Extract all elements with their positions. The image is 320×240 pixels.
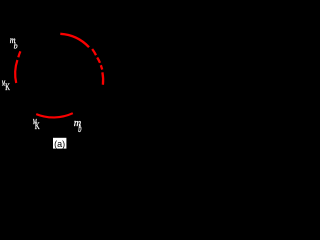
svg-text:(a): (a) — [54, 139, 65, 149]
label M_K bottom-left: subscript K — [35, 121, 40, 131]
svg-text:b: b — [14, 41, 18, 50]
dashed red circle: right dash 3 — [101, 65, 102, 69]
dashed red circle: bottom long arc — [36, 113, 73, 117]
panel tag (a) white box — [53, 138, 66, 149]
dashed red circle: right dash 1 — [92, 49, 96, 55]
dashed red circle: right dash 2 — [97, 58, 100, 63]
dashed red circle: left upper dash — [18, 51, 20, 57]
label kappa_b top-left: main glyph m — [10, 34, 16, 45]
label m_b bottom-right: main glyph m — [74, 118, 82, 129]
svg-text:K: K — [5, 82, 10, 93]
dashed red circle: top-right long arc — [60, 34, 89, 47]
dashed red circle: right vertical dash — [101, 72, 104, 85]
label kappa_b top-left: subscript b — [14, 41, 18, 50]
label M_K left: main glyph M — [2, 80, 6, 88]
dashed red circle: left long dash — [15, 60, 17, 83]
label m_b bottom-right: subscript b — [78, 122, 82, 135]
label M_K left: subscript K — [5, 82, 10, 93]
label M_K bottom-left: main glyph M — [33, 119, 38, 126]
svg-text:b: b — [78, 122, 82, 135]
svg-text:K: K — [35, 121, 40, 131]
